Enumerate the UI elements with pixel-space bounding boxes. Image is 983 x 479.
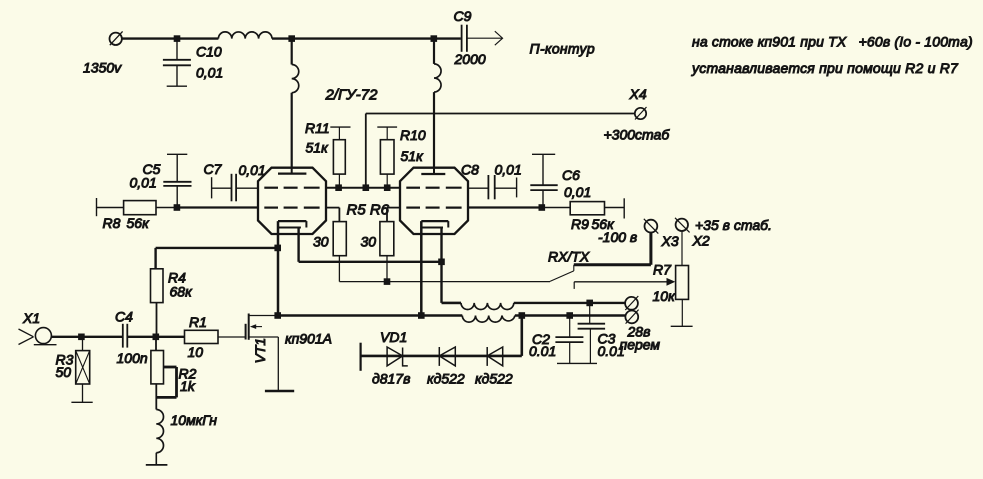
wire X1 to C4 bbox=[51, 336, 122, 338]
svg-text:R11: R11 bbox=[305, 120, 330, 136]
svg-text:2000: 2000 bbox=[454, 51, 486, 67]
svg-text:0,01: 0,01 bbox=[564, 184, 591, 200]
capacitor C8 bbox=[468, 175, 517, 199]
resistor R2 trimmer bbox=[151, 337, 177, 410]
svg-text:д817в: д817в bbox=[372, 371, 410, 387]
node screen2 bbox=[363, 184, 370, 191]
tube V1 screen grid dashes bbox=[264, 187, 319, 189]
wire R7 wiper arrow bbox=[574, 278, 675, 289]
node R3 tap bbox=[78, 334, 85, 341]
capacitor C2 bbox=[555, 316, 583, 364]
inductor bifilar lower winding bbox=[462, 316, 515, 323]
resistor R4 bbox=[151, 269, 164, 337]
capacitor C5 bbox=[163, 154, 191, 207]
node screen1 bbox=[335, 184, 342, 191]
wire V2 cathode lead 2 bbox=[442, 228, 462, 303]
svg-text:X3: X3 bbox=[661, 233, 679, 249]
wire to P-kontur arrow bbox=[467, 31, 503, 45]
terminal 28v lower bbox=[625, 310, 638, 324]
wire +300 rail bbox=[366, 114, 635, 188]
node top2 bbox=[288, 35, 295, 42]
node cathode2 junction bbox=[438, 259, 445, 266]
svg-text:0.01: 0.01 bbox=[598, 343, 625, 359]
svg-text:-100 в: -100 в bbox=[598, 229, 637, 245]
svg-text:X1: X1 bbox=[22, 310, 40, 326]
wire grid bias to switch bbox=[339, 281, 550, 283]
terminal X 1350v bbox=[110, 31, 123, 45]
switch RX/TX bbox=[550, 265, 574, 282]
node drain-choke bbox=[418, 312, 425, 319]
inductor top choke bbox=[218, 32, 272, 39]
terminal X4 bbox=[635, 107, 647, 120]
capacitor C3 bbox=[578, 303, 606, 364]
svg-text:10к: 10к bbox=[653, 288, 677, 304]
capacitor C10 bbox=[163, 39, 191, 87]
node C6 junction bbox=[539, 204, 546, 211]
svg-text:R10: R10 bbox=[400, 127, 426, 143]
svg-text:устанавливается при помощи R2: устанавливается при помощи R2 и R7 bbox=[691, 60, 959, 76]
node R6 bottom bbox=[384, 278, 391, 285]
svg-text:C10: C10 bbox=[196, 44, 222, 60]
node C5 junction bbox=[174, 204, 181, 211]
tube V2 cathode bbox=[421, 221, 448, 227]
svg-text:на стоке кп901 при ТХ +60в (: на стоке кп901 при ТХ +60в (Io - 100ma) bbox=[692, 34, 973, 50]
svg-text:R5 R6: R5 R6 bbox=[347, 202, 390, 219]
tube V2 anode bbox=[421, 168, 445, 174]
resistor R9 bbox=[542, 198, 624, 218]
tube V1 anode bbox=[278, 168, 306, 174]
svg-text:30: 30 bbox=[313, 234, 329, 250]
wire X3 to switch bbox=[574, 233, 651, 265]
inductor anode choke right bbox=[434, 39, 441, 168]
wire grid V2 right bbox=[468, 206, 542, 208]
resistor R11 bbox=[330, 127, 350, 188]
svg-text:10мкГн: 10мкГн bbox=[171, 412, 218, 428]
svg-text:+35 в стаб.: +35 в стаб. bbox=[695, 217, 772, 233]
node C3 tap bbox=[586, 300, 593, 307]
transistor VT1 kp901A bbox=[246, 314, 295, 392]
svg-text:100n: 100n bbox=[117, 350, 148, 366]
node screen3 bbox=[384, 184, 391, 191]
diode kd522 b bbox=[487, 347, 503, 366]
wire diode chain feed bbox=[361, 316, 522, 371]
svg-text:перем: перем bbox=[620, 337, 661, 353]
svg-text:X2: X2 bbox=[692, 233, 710, 249]
node top3 bbox=[431, 35, 438, 42]
svg-text:0.01: 0.01 bbox=[529, 343, 556, 359]
svg-text:0,01: 0,01 bbox=[196, 65, 223, 81]
svg-text:50: 50 bbox=[56, 364, 72, 380]
svg-text:VD1: VD1 bbox=[380, 329, 407, 345]
resistor R1 bbox=[185, 330, 246, 343]
svg-text:+300стаб: +300стаб bbox=[604, 127, 671, 143]
svg-text:X4: X4 bbox=[629, 86, 647, 102]
resistor R6 bbox=[380, 208, 400, 282]
diode VD1 zener d817v bbox=[387, 347, 408, 366]
svg-text:R9: R9 bbox=[571, 216, 589, 232]
tube V2 control grid dashes bbox=[406, 207, 461, 209]
svg-text:кп901А: кп901А bbox=[285, 331, 332, 347]
resistor R8 bbox=[97, 198, 177, 216]
tube V2 envelope bbox=[400, 168, 468, 234]
svg-text:RX/TX: RX/TX bbox=[548, 249, 590, 265]
svg-text:10: 10 bbox=[188, 344, 204, 360]
resistor R5 bbox=[326, 208, 346, 282]
tube V1 cathode bbox=[278, 221, 306, 227]
svg-text:R1: R1 bbox=[189, 314, 207, 330]
svg-text:1k: 1k bbox=[180, 378, 196, 394]
inductor bifilar upper winding bbox=[442, 303, 625, 310]
svg-text:R8: R8 bbox=[103, 215, 121, 231]
svg-text:0,01: 0,01 bbox=[495, 162, 522, 178]
tube V1 control grid dashes bbox=[264, 207, 319, 209]
svg-text:51к: 51к bbox=[401, 148, 425, 164]
node diode tap bbox=[519, 312, 526, 319]
terminal X3 bbox=[644, 219, 659, 234]
resistor R3 bbox=[71, 337, 92, 403]
node gate bbox=[153, 334, 160, 341]
wire V1 cathode lead 1 bbox=[277, 221, 280, 315]
wire V1 cathode lead 2 bbox=[299, 228, 442, 262]
capacitor C9 bbox=[462, 25, 467, 52]
wire cathode to R4 bbox=[156, 248, 278, 269]
terminal 28v upper bbox=[625, 296, 638, 310]
node top1 bbox=[174, 35, 181, 42]
svg-text:68к: 68к bbox=[170, 284, 194, 300]
wire top rail mid bbox=[272, 37, 461, 39]
wire grid V1 left bbox=[177, 206, 258, 208]
wire drain rail bbox=[278, 314, 626, 317]
svg-text:56к: 56к bbox=[127, 215, 151, 231]
svg-text:VT1: VT1 bbox=[252, 338, 268, 364]
node C2 tap bbox=[566, 312, 573, 319]
tube V2 screen grid dashes bbox=[406, 187, 461, 189]
svg-text:0,01: 0,01 bbox=[130, 175, 157, 191]
terminal X2 bbox=[675, 218, 690, 233]
wire V2 cathode lead 1 bbox=[420, 221, 423, 315]
wire C4 to R1 bbox=[127, 336, 184, 338]
potentiometer R7 bbox=[671, 231, 693, 326]
svg-text:R7: R7 bbox=[653, 262, 672, 278]
svg-text:C8: C8 bbox=[461, 162, 479, 178]
svg-text:П-контур: П-контур bbox=[530, 41, 595, 57]
capacitor C6 bbox=[530, 154, 557, 207]
svg-text:C4: C4 bbox=[115, 309, 133, 325]
svg-text:1350v: 1350v bbox=[83, 60, 122, 76]
diode kd522 a bbox=[439, 347, 455, 366]
node drain bbox=[274, 312, 281, 319]
node cathode-R4 bbox=[274, 245, 281, 252]
wire screen bus between tubes bbox=[326, 187, 400, 189]
inductor anode choke left bbox=[292, 39, 299, 168]
svg-text:51к: 51к bbox=[306, 140, 330, 156]
connector X1 bbox=[19, 328, 57, 345]
resistor R10 bbox=[377, 127, 397, 188]
svg-text:C7: C7 bbox=[204, 161, 223, 177]
svg-text:кд522: кд522 bbox=[427, 371, 465, 387]
svg-text:C9: C9 bbox=[454, 8, 472, 24]
svg-text:2/ГУ-72: 2/ГУ-72 bbox=[325, 87, 379, 104]
svg-text:0,01: 0,01 bbox=[239, 162, 266, 178]
capacitor C7 bbox=[212, 174, 258, 202]
tube V1 envelope bbox=[258, 168, 326, 234]
wire top rail left bbox=[122, 37, 218, 39]
svg-text:30: 30 bbox=[361, 234, 377, 250]
svg-text:C6: C6 bbox=[562, 167, 580, 183]
capacitor C4 bbox=[123, 324, 128, 348]
svg-text:кд522: кд522 bbox=[475, 371, 513, 387]
wire C2 C3 bottom stub bbox=[557, 362, 597, 364]
inductor 10uH bbox=[146, 410, 168, 465]
